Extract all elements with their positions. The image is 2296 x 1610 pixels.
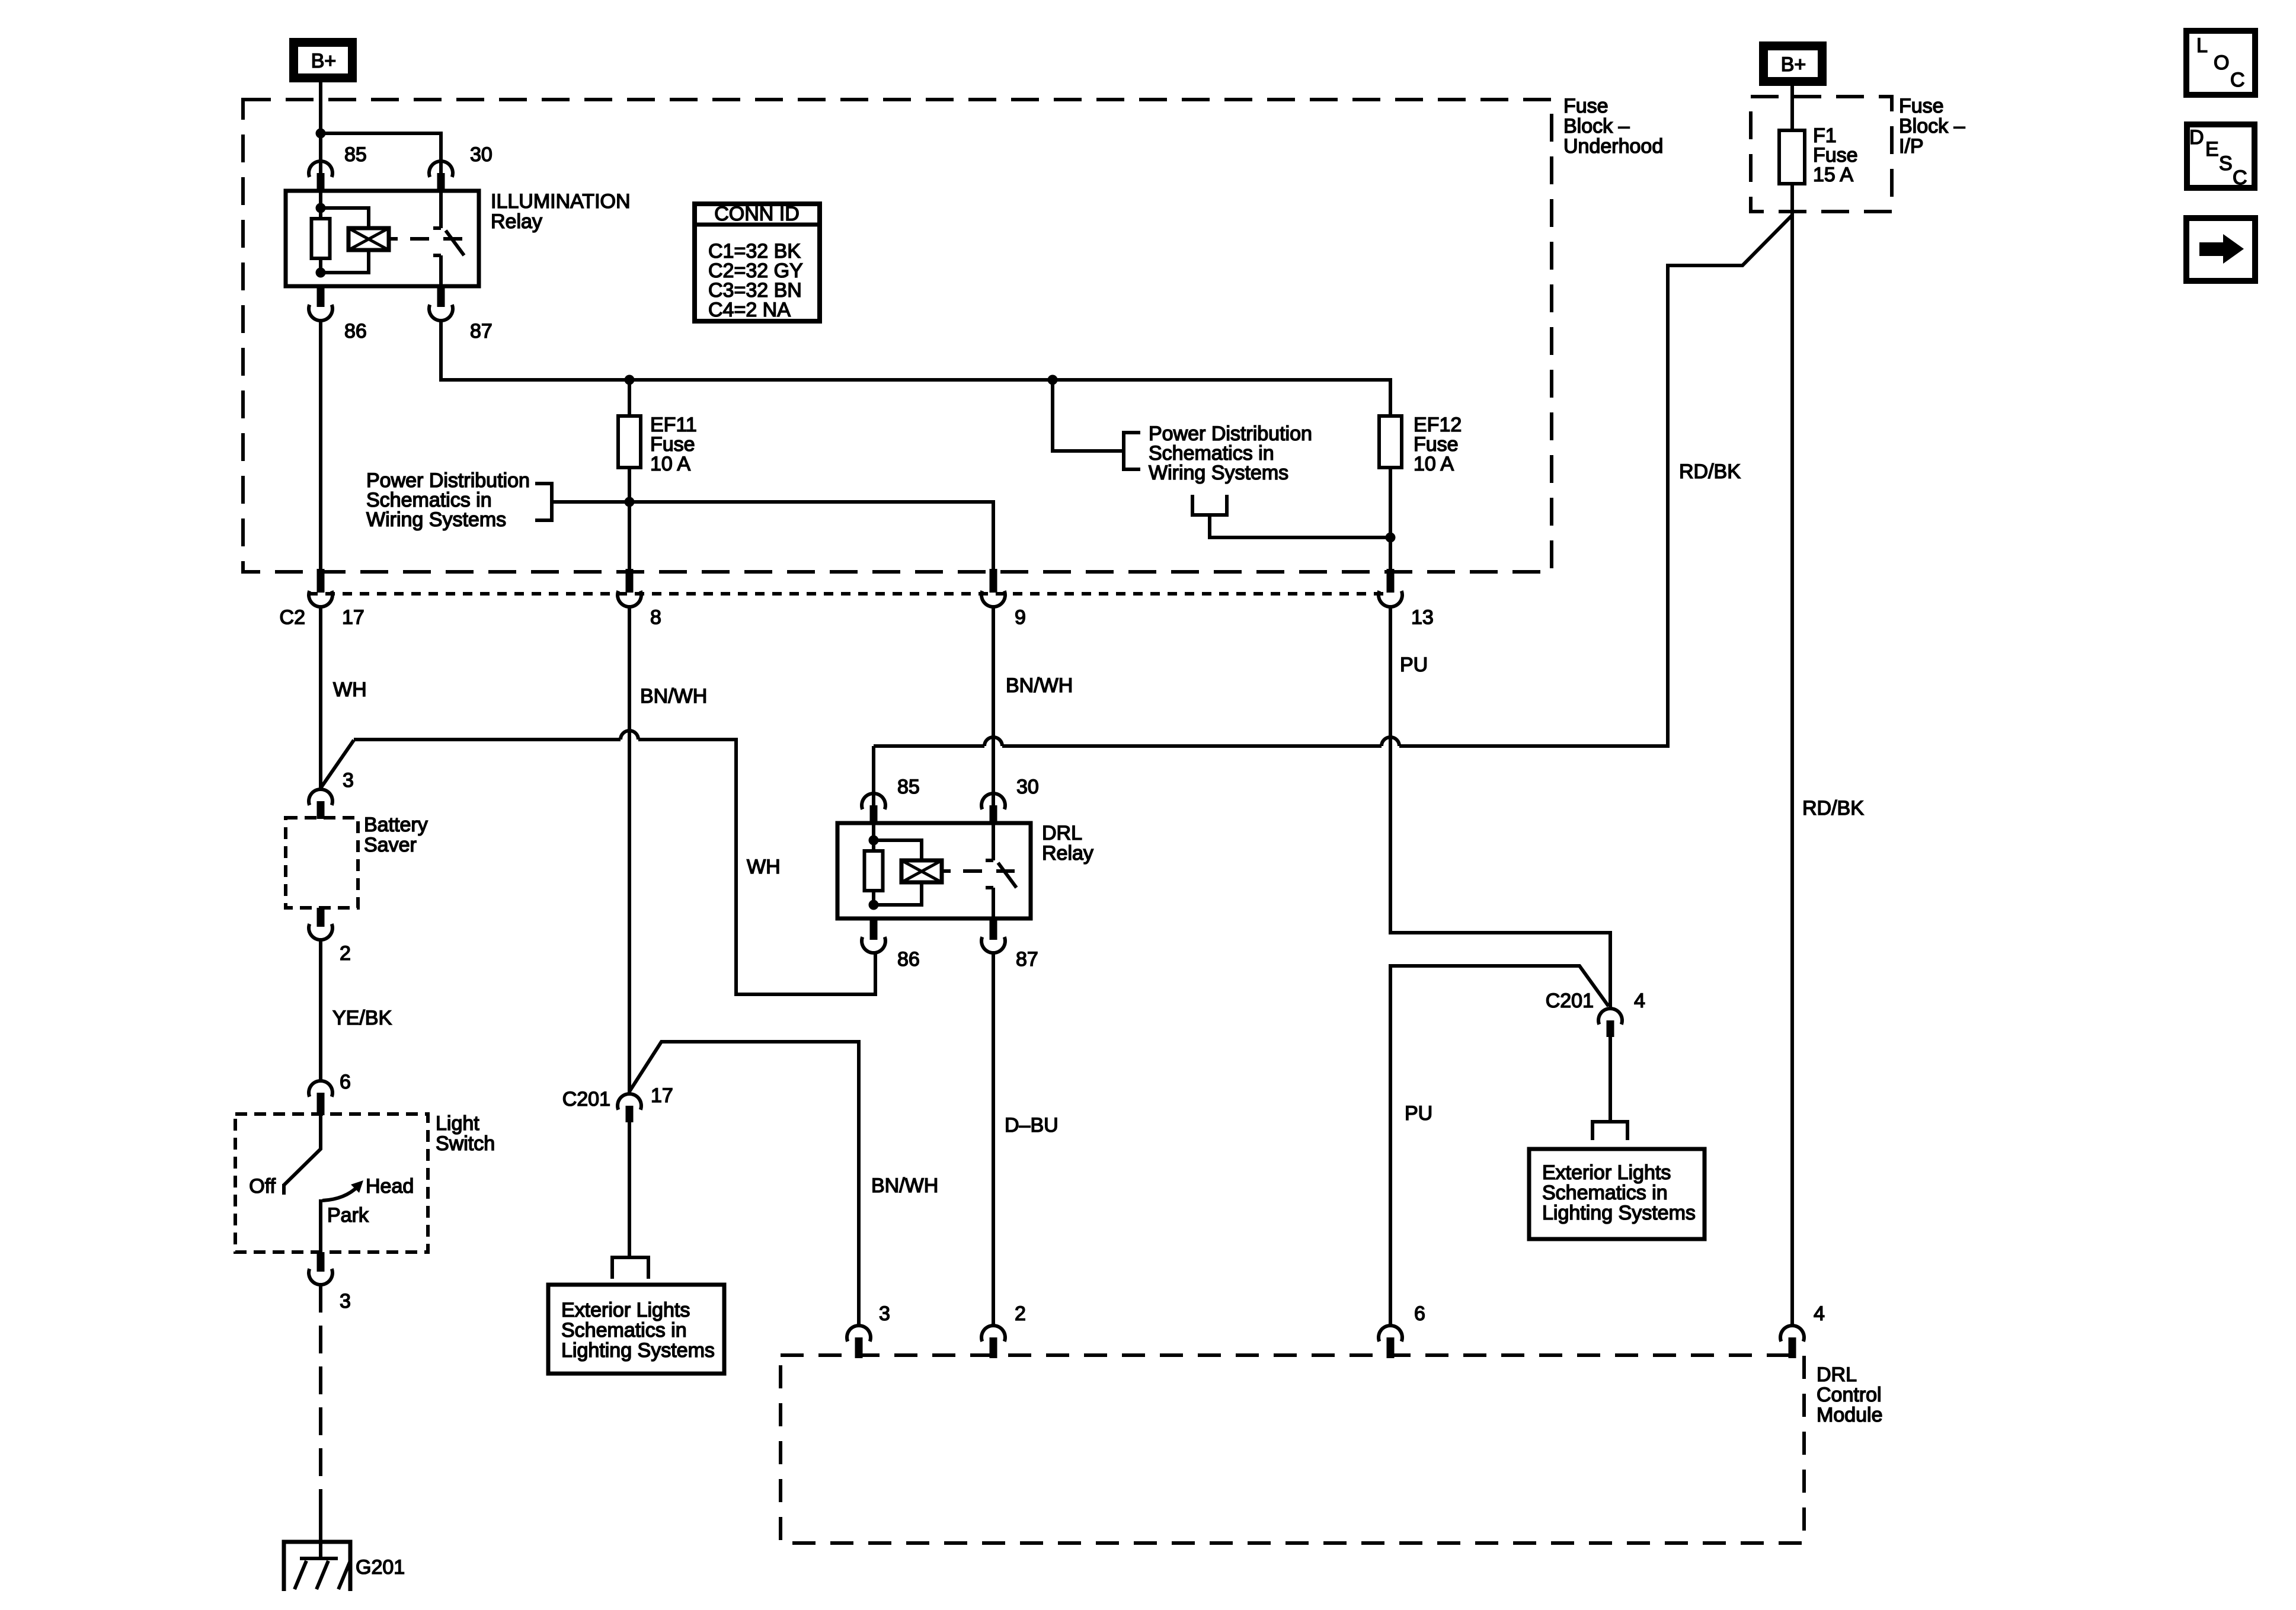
wire tap to power distribution reference (middle) (1053, 380, 1124, 451)
light switch Park contact (319, 1199, 322, 1252)
svg-text:Fuse: Fuse (1899, 95, 1944, 117)
wire branch to pin 30 (321, 133, 441, 173)
relay ILLUMINATION box (286, 191, 479, 286)
illumination relay pin 85 (309, 161, 332, 177)
relay ILLUMINATION coil junction dots (316, 203, 326, 213)
power distribution reference (left) bracket (535, 482, 552, 522)
relay ILLUMINATION armature dashed link (389, 237, 462, 241)
power distribution reference (middle) lower bracket (1191, 495, 1229, 515)
connector C201 pin 4 (1598, 1009, 1622, 1025)
svg-text:YE/BK: YE/BK (332, 1007, 392, 1029)
C2 pin 9 (990, 569, 997, 593)
fuse block underhood dashed outline (243, 100, 1552, 572)
DESC reference box (2187, 124, 2255, 188)
wire hop over BN/WH (621, 731, 638, 740)
svg-text:C201: C201 (562, 1088, 610, 1110)
svg-text:3: 3 (343, 769, 354, 792)
ground G201 (284, 1542, 350, 1591)
DRL relay pin 85 (862, 793, 885, 809)
battery saver dashed box (286, 818, 358, 908)
wire YE/BK battery saver to light switch (319, 940, 322, 1081)
svg-text:Exterior Lights: Exterior Lights (561, 1299, 690, 1321)
light switch wiper arm (Off position) (284, 1114, 321, 1195)
svg-text:Exterior Lights: Exterior Lights (1542, 1161, 1671, 1184)
svg-text:Underhood: Underhood (1563, 135, 1663, 158)
svg-text:Relay: Relay (491, 210, 542, 233)
svg-text:Battery: Battery (364, 814, 428, 836)
CONN ID table (695, 204, 820, 321)
wire branch C201-4 to module pin 6 (1390, 966, 1609, 1324)
C2 pin 8 (626, 569, 634, 593)
wire RD/BK branch F1 to DRL relay coil (1399, 215, 1792, 746)
svg-text:4: 4 (1814, 1302, 1825, 1325)
svg-text:30: 30 (1016, 776, 1039, 798)
svg-text:Off: Off (249, 1175, 276, 1198)
svg-text:Saver: Saver (364, 834, 417, 856)
svg-text:S: S (2219, 152, 2233, 175)
B+ battery feed terminal (left) (294, 43, 353, 78)
dashed wire light switch to ground (319, 1285, 322, 1525)
wire EF12 to pin 13 (1389, 468, 1392, 570)
wire C201-17 to exterior lights reference (628, 1122, 631, 1257)
wire PU pin 13 down (1390, 607, 1610, 1009)
svg-text:Schematics in: Schematics in (1542, 1182, 1668, 1204)
svg-text:C: C (2230, 69, 2245, 91)
svg-text:87: 87 (470, 320, 493, 343)
DRL control module pin 4 (1780, 1326, 1804, 1342)
wire hop over PU (1382, 737, 1399, 746)
relay DRL switch contacts (986, 823, 993, 918)
svg-text:30: 30 (470, 143, 493, 166)
svg-text:BN/WH: BN/WH (640, 685, 707, 708)
svg-text:2: 2 (1015, 1302, 1026, 1325)
exterior lights reference (left) box (548, 1285, 724, 1374)
svg-text:G201: G201 (356, 1556, 405, 1579)
relay DRL solenoid winding (874, 840, 922, 905)
DRL relay pin 86 (870, 918, 878, 940)
svg-text:RD/BK: RD/BK (1679, 460, 1741, 483)
svg-text:C201: C201 (1546, 990, 1594, 1012)
svg-text:DRL: DRL (1817, 1363, 1857, 1386)
svg-text:PU: PU (1400, 654, 1428, 676)
wire hop over BN/WH pin 9 (984, 737, 1002, 746)
svg-text:D–BU: D–BU (1005, 1114, 1059, 1137)
wire RD/BK to DRL relay 85 (872, 746, 875, 805)
wire WH C2-17 to battery saver (319, 607, 322, 789)
svg-text:D: D (2189, 126, 2204, 149)
wire D-BU DRL 87 to module pin 2 (992, 953, 995, 1324)
relay DRL box (837, 823, 1031, 918)
wire WH branch to DRL relay 86 (354, 738, 621, 741)
light switch pin 6 (309, 1081, 332, 1097)
wire RD/BK F1 to module pin 4 (1790, 184, 1794, 1324)
wire WH branch diagonal (321, 740, 354, 788)
svg-text:ILLUMINATION: ILLUMINATION (491, 190, 631, 213)
svg-text:WH: WH (747, 856, 781, 878)
svg-text:Block –: Block – (1899, 115, 1965, 137)
C2 pin 17 (317, 569, 325, 593)
svg-text:C2: C2 (280, 606, 305, 629)
svg-text:CONN ID: CONN ID (714, 203, 800, 225)
junction node B+ branch (316, 129, 326, 139)
DRL control module pin 6 (1379, 1326, 1402, 1342)
junction EF12 output (1386, 533, 1396, 543)
wire B+ to illumination relay pin 85 (319, 82, 322, 173)
svg-text:17: 17 (342, 606, 364, 629)
svg-text:BN/WH: BN/WH (1006, 674, 1073, 697)
illumination relay pin 86 (317, 286, 325, 307)
svg-text:Control: Control (1817, 1384, 1882, 1406)
DRL relay pin 87 (990, 918, 997, 940)
illumination relay pin 87 (437, 286, 445, 307)
svg-text:Light: Light (436, 1112, 479, 1135)
light switch pin 3 (317, 1252, 325, 1272)
wire power distribution to pin 9 (552, 502, 993, 570)
svg-text:C4=2 NA: C4=2 NA (708, 299, 791, 321)
wire C201-4 to exterior lights reference (1609, 1037, 1612, 1122)
fuse F1 (1790, 86, 1794, 130)
svg-text:I/P: I/P (1899, 135, 1924, 158)
svg-text:B+: B+ (1781, 53, 1806, 76)
svg-text:6: 6 (340, 1071, 351, 1093)
svg-text:6: 6 (1414, 1302, 1425, 1325)
svg-text:Relay: Relay (1042, 842, 1093, 865)
wire lower bracket to EF12 output (1210, 515, 1390, 537)
svg-text:87: 87 (1016, 948, 1038, 971)
B+ battery feed terminal (right) (1764, 46, 1822, 82)
svg-text:4: 4 (1634, 990, 1645, 1012)
svg-text:Fuse: Fuse (1563, 95, 1609, 117)
fuse EF12 (1379, 416, 1402, 468)
svg-text:BN/WH: BN/WH (871, 1174, 938, 1197)
wire BN/WH pin 8 to C201 pin 17 (628, 607, 631, 1094)
relay DRL coil junction dots (869, 836, 879, 846)
svg-text:PU: PU (1405, 1102, 1432, 1125)
connector C2 dotted line (308, 592, 1390, 596)
junction right power distribution tap (1048, 375, 1058, 385)
relay ILLUMINATION coil resistor (319, 191, 322, 273)
svg-text:3: 3 (879, 1302, 890, 1325)
DRL relay pin 30 (981, 793, 1005, 809)
svg-text:Block –: Block – (1563, 115, 1630, 137)
svg-text:WH: WH (333, 678, 367, 701)
svg-text:10 A: 10 A (1414, 453, 1454, 475)
wire illumination 87 output bus (441, 321, 1390, 416)
svg-text:E: E (2205, 138, 2219, 161)
svg-text:8: 8 (650, 606, 661, 629)
fuse EF11 (628, 380, 631, 416)
DRL control module dashed box (781, 1355, 1804, 1543)
svg-text:15 A: 15 A (1813, 164, 1853, 186)
svg-text:3: 3 (340, 1290, 351, 1313)
exterior lights reference (right) bracket (1593, 1122, 1627, 1140)
svg-text:17: 17 (651, 1084, 673, 1107)
LOC reference box (2186, 31, 2255, 95)
svg-text:Wiring Systems: Wiring Systems (1149, 462, 1288, 484)
svg-text:86: 86 (897, 948, 920, 971)
svg-text:Wiring Systems: Wiring Systems (366, 508, 506, 531)
wire EF11 to pin 8 (628, 468, 631, 570)
wire illumination 86 to C2 pin 17 (319, 321, 322, 570)
relay ILLUMINATION switch contacts (433, 191, 441, 286)
exterior lights reference (right) box (1529, 1149, 1705, 1239)
C2 pin 13 (1387, 569, 1395, 593)
arrow reference box (2186, 218, 2255, 281)
svg-text:Lighting Systems: Lighting Systems (561, 1339, 715, 1362)
battery saver pin 2 (317, 908, 325, 927)
svg-text:B+: B+ (311, 50, 337, 72)
svg-text:13: 13 (1411, 606, 1434, 629)
svg-text:Module: Module (1817, 1404, 1883, 1426)
svg-text:10 A: 10 A (650, 453, 690, 475)
svg-text:9: 9 (1015, 606, 1026, 629)
light switch Head position arrow (322, 1186, 358, 1201)
relay ILLUMINATION solenoid winding (321, 208, 369, 273)
light switch dashed box (235, 1114, 428, 1252)
junction EF11 output (625, 497, 635, 507)
svg-text:Park: Park (327, 1204, 369, 1227)
power distribution reference (middle) bracket (1124, 431, 1140, 471)
svg-text:85: 85 (344, 143, 367, 166)
svg-text:L: L (2196, 34, 2208, 57)
junction EF11 tap (625, 375, 635, 385)
svg-text:O: O (2214, 52, 2229, 74)
connector C201 pin 17 (618, 1094, 641, 1110)
svg-text:85: 85 (897, 776, 920, 798)
svg-text:Lighting Systems: Lighting Systems (1542, 1202, 1696, 1224)
svg-text:RD/BK: RD/BK (1802, 797, 1864, 820)
svg-text:2: 2 (340, 942, 351, 965)
relay DRL armature dashed link (942, 869, 1015, 873)
DRL control module pin 3 (847, 1326, 871, 1342)
svg-text:Head: Head (366, 1175, 414, 1198)
fuse block I/P dashed outline (1751, 97, 1892, 212)
svg-text:DRL: DRL (1042, 822, 1082, 844)
exterior lights reference (left) bracket (612, 1257, 648, 1279)
wire branch C201-17 to module pin 3 (629, 1042, 859, 1324)
svg-text:C: C (2233, 167, 2247, 189)
illumination relay pin 30 (429, 161, 453, 177)
relay DRL coil resistor (872, 823, 875, 905)
DRL control module pin 2 (981, 1326, 1005, 1342)
wire pin 9 to DRL relay 30 (992, 607, 995, 805)
svg-text:86: 86 (344, 320, 367, 343)
svg-text:Switch: Switch (436, 1132, 495, 1155)
battery saver pin 3 (309, 789, 332, 805)
svg-text:Schematics in: Schematics in (561, 1319, 687, 1342)
